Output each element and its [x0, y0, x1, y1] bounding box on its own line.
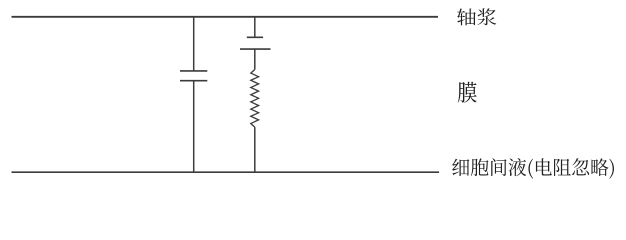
- node label: 细胞间液(电阻忽略) (interstitial fluid, resistance neglected): [452, 158, 614, 179]
- node label: 膜 (membrane): [458, 82, 477, 103]
- wire: left branch, capacitor down to bottom rail: [193, 81, 195, 172]
- wire: left branch, top rail down to capacitor: [193, 17, 195, 71]
- wire: right branch, top rail down to battery: [254, 17, 256, 37]
- wire: battery to resistor: [254, 49, 256, 69]
- wire: resistor to bottom rail: [254, 127, 256, 172]
- resistor R (membrane resistance zigzag): [251, 70, 259, 128]
- wire: top rail (axoplasm side): [12, 16, 439, 18]
- battery E (membrane emf, short plate): [247, 36, 263, 38]
- wire: bottom rail (extracellular side): [12, 171, 440, 173]
- battery E (membrane emf, long plate): [240, 48, 271, 50]
- capacitor Cm (membrane capacitance plates): [180, 71, 207, 81]
- node label: 轴浆 (axoplasm): [457, 8, 496, 25]
